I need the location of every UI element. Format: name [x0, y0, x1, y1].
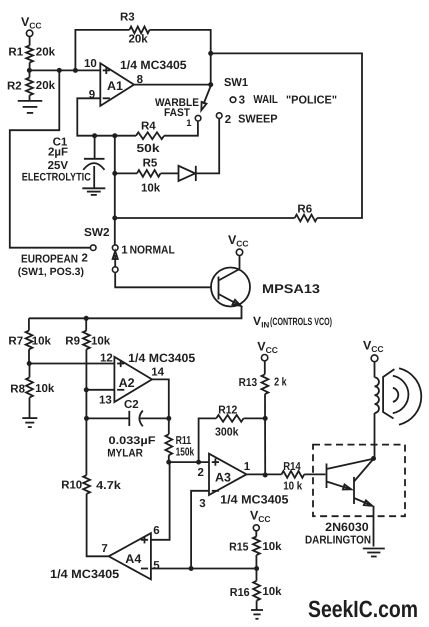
- svg-text:FAST: FAST: [164, 107, 190, 119]
- svg-text:150k: 150k: [176, 446, 195, 458]
- svg-text:10k: 10k: [91, 336, 111, 348]
- svg-text:SW2: SW2: [84, 227, 110, 239]
- svg-text:3: 3: [239, 95, 245, 107]
- svg-text:20k: 20k: [36, 80, 56, 92]
- svg-text:20k: 20k: [36, 46, 56, 58]
- svg-text:V: V: [253, 314, 261, 328]
- svg-text:5: 5: [153, 560, 160, 572]
- svg-text:300k: 300k: [215, 427, 239, 439]
- svg-text:0.033µF: 0.033µF: [109, 435, 156, 447]
- svg-text:C2: C2: [124, 399, 139, 411]
- svg-text:R5: R5: [143, 158, 158, 170]
- svg-text:EUROPEAN: EUROPEAN: [21, 254, 78, 266]
- svg-text:13: 13: [99, 394, 112, 406]
- svg-text:A4: A4: [125, 552, 141, 566]
- svg-text:ELECTROLYTIC: ELECTROLYTIC: [22, 171, 91, 183]
- svg-text:CC: CC: [236, 239, 248, 249]
- svg-text:R4: R4: [141, 121, 156, 133]
- svg-text:10k: 10k: [32, 336, 52, 348]
- svg-text:R11: R11: [176, 435, 192, 447]
- svg-text:NORMAL: NORMAL: [130, 244, 175, 256]
- svg-text:"POLICE": "POLICE": [286, 95, 337, 107]
- svg-text:R15: R15: [229, 541, 249, 553]
- svg-text:1: 1: [121, 244, 128, 256]
- svg-text:R7: R7: [8, 336, 23, 348]
- svg-text:2µF: 2µF: [48, 147, 68, 159]
- svg-text:6: 6: [153, 525, 159, 537]
- svg-text:1/4 MC3405: 1/4 MC3405: [50, 567, 120, 581]
- svg-text:10k: 10k: [262, 586, 282, 598]
- svg-text:R8: R8: [10, 383, 25, 395]
- svg-text:CC: CC: [266, 345, 278, 355]
- svg-text:R9: R9: [65, 336, 80, 348]
- svg-text:10k: 10k: [262, 541, 282, 553]
- svg-text:A3: A3: [215, 471, 231, 485]
- svg-text:25V: 25V: [48, 160, 69, 172]
- svg-text:SeekIC.com: SeekIC.com: [308, 596, 418, 622]
- svg-text:A2: A2: [119, 376, 135, 390]
- svg-text:MPSA13: MPSA13: [262, 282, 320, 296]
- svg-text:CC: CC: [29, 21, 41, 31]
- svg-text:DARLINGTON: DARLINGTON: [305, 534, 371, 546]
- svg-text:MYLAR: MYLAR: [107, 448, 143, 460]
- svg-text:10k: 10k: [141, 183, 161, 195]
- svg-text:R12: R12: [218, 404, 237, 416]
- svg-text:1/4 MC3405: 1/4 MC3405: [120, 58, 187, 72]
- svg-text:10k: 10k: [35, 383, 55, 395]
- svg-text:R10: R10: [61, 479, 82, 491]
- svg-text:2N6030: 2N6030: [325, 520, 369, 534]
- svg-text:A1: A1: [107, 79, 123, 93]
- svg-text:14: 14: [151, 367, 164, 379]
- svg-text:WAIL: WAIL: [253, 94, 278, 106]
- svg-text:CC: CC: [371, 344, 383, 354]
- svg-text:CC: CC: [258, 514, 270, 524]
- svg-text:R16: R16: [230, 587, 250, 599]
- svg-text:12: 12: [100, 353, 113, 365]
- svg-text:(CONTROLS VCO): (CONTROLS VCO): [270, 316, 332, 328]
- svg-text:1: 1: [244, 461, 251, 473]
- svg-text:2: 2: [225, 114, 231, 126]
- svg-text:50k: 50k: [137, 143, 161, 155]
- svg-text:1/4 MC3405: 1/4 MC3405: [128, 351, 195, 365]
- svg-text:R2: R2: [7, 81, 22, 93]
- svg-text:4.7k: 4.7k: [96, 480, 121, 492]
- svg-text:7: 7: [101, 543, 107, 555]
- svg-text:10 k: 10 k: [283, 481, 303, 493]
- svg-text:R6: R6: [297, 203, 312, 215]
- svg-text:2: 2: [198, 467, 204, 479]
- svg-text:10: 10: [84, 58, 97, 70]
- svg-text:2: 2: [82, 253, 88, 265]
- svg-text:2 k: 2 k: [274, 377, 287, 389]
- svg-text:1: 1: [186, 118, 192, 129]
- svg-text:(SW1, POS.3): (SW1, POS.3): [18, 266, 84, 278]
- svg-text:20k: 20k: [129, 33, 149, 45]
- svg-text:SW1: SW1: [224, 77, 249, 89]
- svg-text:SWEEP: SWEEP: [238, 114, 278, 126]
- svg-text:R3: R3: [120, 12, 135, 24]
- svg-text:1/4 MC3405: 1/4 MC3405: [220, 493, 289, 507]
- svg-text:3: 3: [199, 498, 205, 510]
- svg-text:IN: IN: [261, 321, 269, 330]
- svg-text:R1: R1: [8, 46, 23, 58]
- svg-text:R13: R13: [239, 377, 258, 389]
